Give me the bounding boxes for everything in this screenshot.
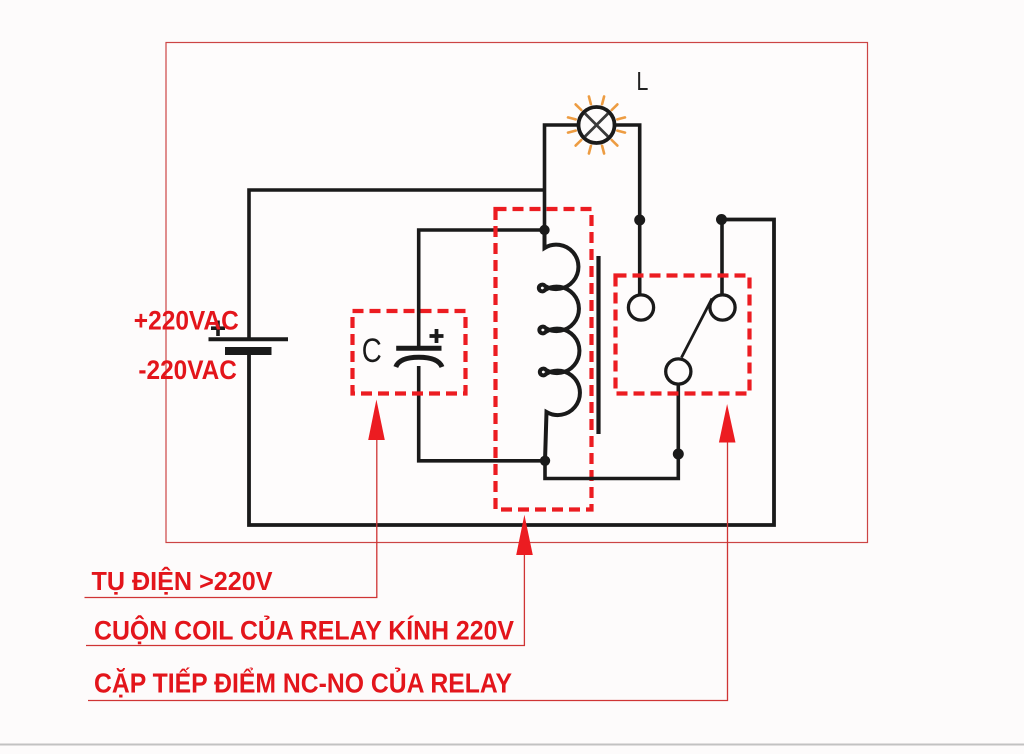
wire coil bottom to contact common (545, 384, 678, 479)
junction dot NO branch (716, 214, 727, 225)
wire NO contact top (720, 220, 724, 296)
wire capacitor top branch (419, 230, 545, 346)
junction dot coil bottom (540, 456, 550, 466)
svg-text:L: L (636, 68, 648, 96)
relay core bar (596, 256, 600, 434)
leader line contacts label (88, 443, 728, 701)
svg-text:CẶP TIẾP ĐIỂM NC-NO CỦA RELAY: CẶP TIẾP ĐIỂM NC-NO CỦA RELAY (94, 666, 512, 698)
svg-text:+220VAC: +220VAC (134, 305, 239, 335)
lamp L (579, 107, 615, 143)
capacitor C (396, 348, 442, 367)
arrow to contacts box (719, 404, 736, 443)
arrow to coil box (516, 515, 533, 555)
battery plus mark (211, 321, 225, 337)
bottom divider (0, 744, 1024, 746)
contact NO circle (710, 295, 735, 320)
contact armature (682, 299, 713, 358)
wire battery top to lamp branch (249, 190, 545, 340)
battery B1 (209, 339, 289, 351)
wire lamp right lead down to NC contact (614, 125, 639, 295)
arrow to capacitor box (368, 400, 385, 441)
junction dot NC branch (634, 215, 645, 226)
contact NC circle (628, 295, 653, 320)
junction dot coil top (539, 225, 549, 235)
frame border (166, 43, 868, 543)
contact common circle (666, 359, 691, 384)
svg-text:CUỘN COIL CỦA RELAY KÍNH 220V: CUỘN COIL CỦA RELAY KÍNH 220V (94, 613, 514, 645)
svg-text:-220VAC: -220VAC (138, 355, 237, 385)
wire bottom loop from NO branch through bottom to battery minus (249, 220, 774, 526)
dashed box contacts (616, 276, 750, 394)
junction dot common branch (673, 449, 684, 460)
lamp rays (568, 97, 625, 154)
svg-text:TỤ ĐIỆN >220V: TỤ ĐIỆN >220V (92, 566, 274, 596)
wire capacitor bottom branch (419, 366, 545, 461)
dashed box capacitor (353, 311, 466, 394)
relay coil K1 (539, 230, 580, 461)
dashed box coil (496, 209, 592, 510)
leader line capacitor label (85, 440, 377, 598)
wire lamp left lead (545, 125, 579, 230)
leader line coil label (86, 555, 524, 646)
svg-text:C: C (362, 332, 382, 370)
capacitor plus mark (430, 329, 444, 343)
